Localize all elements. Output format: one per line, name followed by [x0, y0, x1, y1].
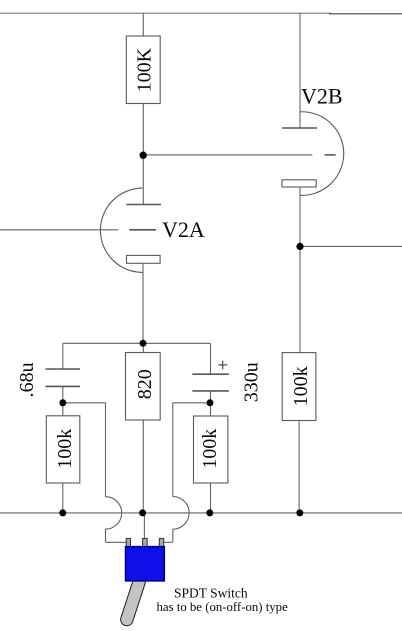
svg-text:100K: 100K: [134, 47, 156, 92]
svg-text:820: 820: [134, 369, 156, 399]
svg-text:330u: 330u: [240, 362, 262, 402]
svg-text:.68u: .68u: [16, 362, 38, 397]
svg-text:100k: 100k: [290, 366, 312, 406]
svg-text:has to be (on-off-on) type: has to be (on-off-on) type: [157, 600, 289, 614]
svg-text:V2A: V2A: [162, 217, 205, 242]
svg-text:100k: 100k: [199, 429, 221, 469]
svg-text:100k: 100k: [54, 429, 76, 469]
svg-text:V2B: V2B: [301, 84, 343, 109]
svg-text:SPDT Switch: SPDT Switch: [174, 586, 248, 601]
